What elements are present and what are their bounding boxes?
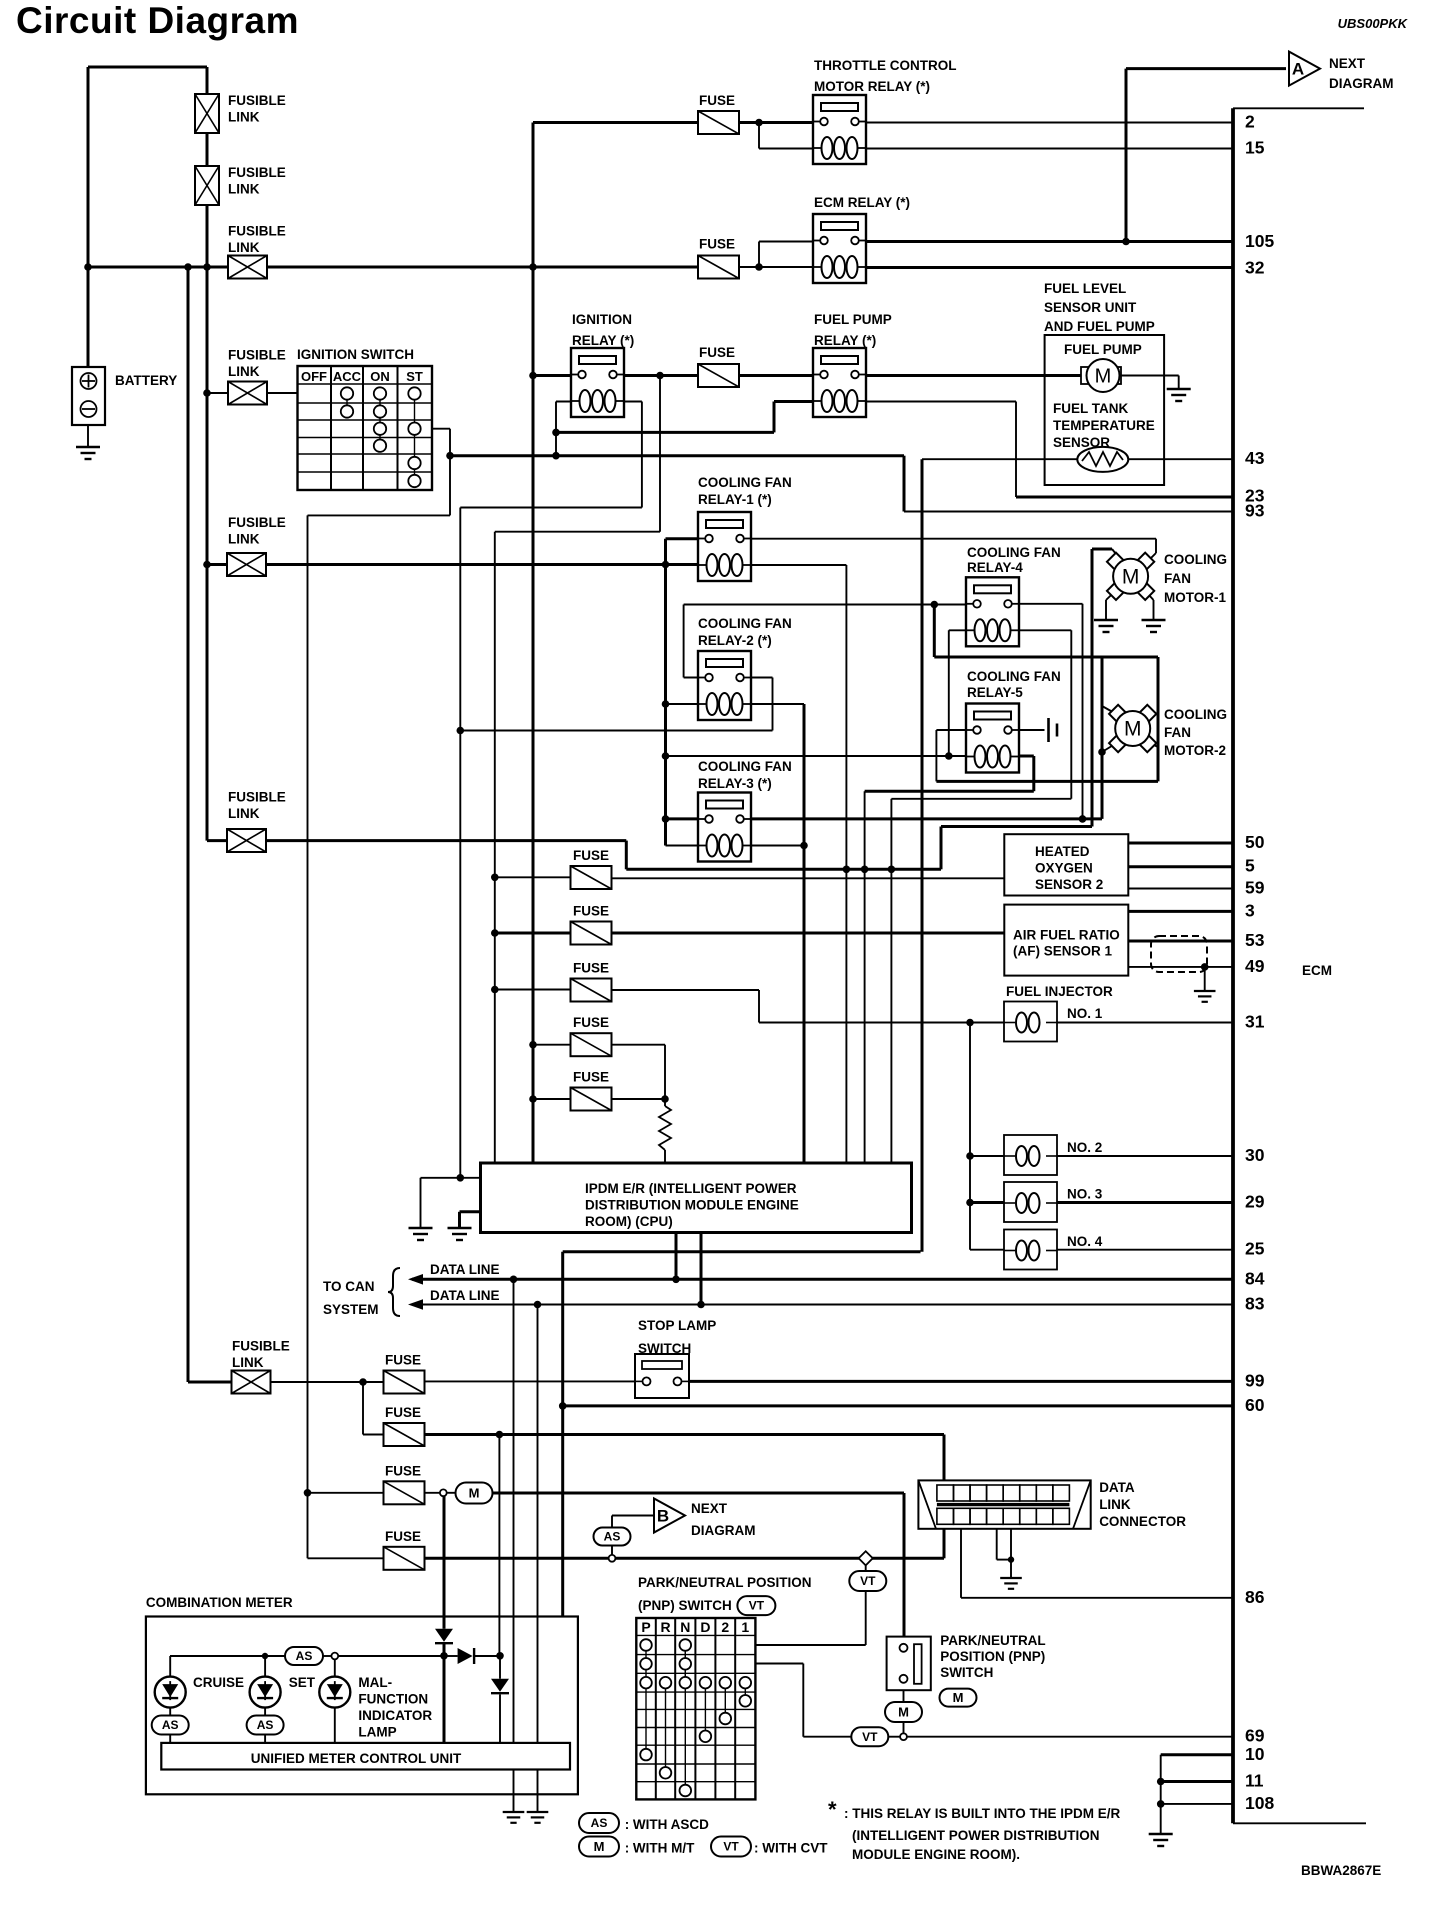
wire to fuse (495, 932, 571, 935)
junction (359, 1378, 367, 1386)
ground (meter 2) (527, 1812, 549, 1823)
VT oval (pin 69) (851, 1727, 888, 1746)
svg-text:OFF: OFF (301, 369, 327, 384)
ground (battery) (76, 447, 100, 459)
svg-text:SENSOR UNIT: SENSOR UNIT (1044, 300, 1137, 315)
svg-text:NO. 1: NO. 1 (1067, 1006, 1103, 1021)
svg-text:VT: VT (862, 1730, 878, 1744)
VT legend oval (711, 1837, 751, 1857)
fuse (ECM relay) (698, 256, 739, 279)
wire fuse to heated oxygen sensor (612, 877, 1005, 879)
svg-text:INDICATOR: INDICATOR (358, 1708, 432, 1723)
svg-text:FUSE: FUSE (385, 1353, 421, 1368)
junction fuse2 feed (491, 929, 499, 937)
fuse (DLC) (384, 1423, 425, 1446)
wire relay-5 coil feed (666, 755, 974, 757)
svg-text:LINK: LINK (228, 182, 260, 197)
junction (697, 1301, 705, 1309)
junction (888, 866, 896, 874)
wire relay-2 coil return (744, 703, 804, 705)
dashed connector (AF sensor) (1151, 936, 1207, 972)
fuse 5 (571, 1088, 612, 1111)
wire ignition relay to fuse (617, 374, 698, 377)
svg-text:DATA: DATA (1099, 1480, 1135, 1495)
svg-text:FUEL LEVEL: FUEL LEVEL (1044, 281, 1126, 296)
wire relay-4 coil return (1012, 629, 1071, 631)
svg-text:LINK: LINK (228, 364, 260, 379)
wire to ignition relay contact (533, 374, 578, 377)
wire MIL top (334, 1659, 336, 1677)
svg-text:60: 60 (1245, 1395, 1265, 1415)
svg-text:THROTTLE CONTROL: THROTTLE CONTROL (814, 58, 956, 73)
svg-text:(PNP) SWITCH: (PNP) SWITCH (638, 1598, 732, 1613)
wire battery negative to ground (87, 425, 89, 447)
svg-text:MAL-: MAL- (358, 1675, 392, 1690)
svg-text:TO CAN: TO CAN (323, 1279, 375, 1294)
svg-text:SET: SET (289, 1675, 316, 1690)
svg-text:DIAGRAM: DIAGRAM (1329, 76, 1394, 91)
svg-text:STOP LAMP: STOP LAMP (638, 1318, 716, 1333)
wire data line 2 termination (537, 1305, 539, 1743)
wire AS tap (611, 1546, 613, 1556)
svg-text:M: M (469, 1485, 480, 1500)
ground (IPDM 1) (409, 1228, 433, 1240)
ignition switch table (298, 366, 433, 490)
fusible link 5 (227, 553, 266, 576)
svg-text:M: M (953, 1690, 964, 1705)
wire AF sensor to pin 3 (1128, 910, 1233, 913)
wire relay-1 coil return (744, 564, 846, 566)
svg-text:M: M (1122, 565, 1140, 588)
fuse (fuel pump relay) (698, 364, 739, 387)
svg-text:TEMPERATURE: TEMPERATURE (1053, 418, 1155, 433)
cooling fan relay-5 (965, 704, 1020, 773)
junction (457, 727, 465, 735)
svg-text:NO. 2: NO. 2 (1067, 1140, 1102, 1155)
svg-text:PARK/NEUTRAL POSITION: PARK/NEUTRAL POSITION (638, 1575, 812, 1590)
svg-text:SENSOR: SENSOR (1053, 435, 1110, 450)
svg-text:RELAY (*): RELAY (*) (814, 333, 876, 348)
svg-text:IPDM E/R (INTELLIGENT POWER: IPDM E/R (INTELLIGENT POWER (585, 1181, 797, 1196)
ground (ECM pins) (1149, 1834, 1173, 1846)
wire injector no.1 to pin 31 (1057, 1022, 1233, 1024)
wire inside PNP switch (903, 1651, 905, 1675)
svg-text:43: 43 (1245, 448, 1265, 468)
svg-text:Circuit Diagram: Circuit Diagram (16, 0, 299, 41)
data link connector (918, 1480, 1090, 1528)
svg-text:FAN: FAN (1164, 571, 1191, 586)
svg-text:49: 49 (1245, 956, 1265, 976)
svg-text:HEATED: HEATED (1035, 844, 1090, 859)
fuse (meter M) (384, 1481, 425, 1504)
next diagram A arrow (1289, 52, 1320, 86)
junction (203, 263, 211, 271)
svg-text:FUSE: FUSE (385, 1405, 421, 1420)
wire to next diagram B (612, 1515, 654, 1517)
svg-text:: WITH M/T: : WITH M/T (625, 1841, 695, 1856)
svg-text:(AF) SENSOR 1: (AF) SENSOR 1 (1013, 944, 1113, 959)
stop lamp switch (635, 1354, 689, 1398)
connector circle (pin 69) (900, 1733, 907, 1740)
wire cooling fan feed vertical (664, 539, 667, 846)
svg-text:ECM: ECM (1302, 963, 1332, 978)
wire fuse to data link connector (424, 1433, 945, 1436)
wire PNP switch row 1 (755, 1644, 865, 1646)
junction (203, 561, 211, 569)
svg-text:93: 93 (1245, 501, 1265, 521)
svg-text:2: 2 (1245, 111, 1255, 131)
junction (662, 561, 670, 569)
wire M/T circuit to PNP switch (492, 1492, 904, 1495)
svg-text:DATA LINE: DATA LINE (430, 1262, 500, 1277)
wire fusible link 4 to ignition switch (266, 392, 298, 394)
svg-text:RELAY (*): RELAY (*) (572, 333, 634, 348)
junction (529, 1095, 537, 1103)
wire to fuse (495, 989, 571, 991)
AS oval (set) (247, 1716, 284, 1735)
svg-text:BBWA2867E: BBWA2867E (1301, 1863, 1381, 1878)
svg-text:AS: AS (591, 1816, 608, 1830)
junction (304, 1489, 312, 1497)
svg-text:N: N (680, 1619, 690, 1635)
wire motor-1 to ground right (1143, 589, 1154, 601)
svg-text:FUEL TANK: FUEL TANK (1053, 401, 1128, 416)
junction (945, 752, 953, 760)
wire to fuse (533, 1044, 571, 1046)
wire to relay-3 coil (666, 845, 707, 847)
svg-text:LINK: LINK (228, 532, 260, 547)
resistor (IPDM) (659, 1106, 671, 1150)
wire fusible link column (206, 205, 209, 841)
park/neutral position switch component (887, 1637, 931, 1691)
junction (529, 263, 537, 271)
wire motor-2 left taps (1101, 657, 1104, 819)
svg-text:AS: AS (604, 1530, 621, 1544)
wire to relay-5 contact (936, 729, 973, 731)
fusible link 4 (228, 382, 267, 405)
wire combination meter lamp feed (170, 1655, 285, 1657)
svg-text:15: 15 (1245, 138, 1265, 158)
svg-text:99: 99 (1245, 1370, 1265, 1390)
wire to fusible link 4 (207, 392, 228, 394)
wire motor-1 upper-left (1092, 548, 1112, 551)
svg-text:11: 11 (1245, 1771, 1264, 1791)
svg-text:(INTELLIGENT POWER DISTRIBUTIO: (INTELLIGENT POWER DISTRIBUTION (852, 1828, 1100, 1843)
VT oval (CVT) (849, 1571, 886, 1591)
wire injector no.2 to pin 30 (1057, 1155, 1233, 1157)
svg-text:LINK: LINK (228, 240, 260, 255)
svg-text:3: 3 (1245, 900, 1255, 920)
wire motor-2 to relay-5 contact (936, 780, 1158, 783)
cooling fan motor-1 (1107, 553, 1154, 600)
wire injector no.3 to pin 29 (1057, 1201, 1233, 1204)
wire ACC feed to IPDM (494, 532, 496, 1162)
wire to relay-2 coil (666, 703, 708, 705)
svg-text:VT: VT (723, 1840, 739, 1854)
wire throttle relay contact to pin 2 (859, 122, 1234, 124)
junction motor-2 blade (1098, 748, 1106, 756)
fuse (throttle relay) (698, 111, 739, 134)
fuse (meter AS) (384, 1547, 425, 1570)
svg-text:86: 86 (1245, 1587, 1265, 1607)
ground (AF sensor shield) (1194, 991, 1216, 1002)
wire HO2S to pin 5 (1128, 865, 1233, 868)
wire to fuse (495, 876, 571, 878)
svg-text:RELAY-2 (*): RELAY-2 (*) (698, 633, 772, 648)
wire ignition relay coil left (556, 401, 579, 403)
wire to ground (420, 1178, 422, 1228)
svg-text:AS: AS (296, 1649, 313, 1663)
throttle control motor relay (812, 95, 867, 164)
diode (M circuit) (435, 1629, 453, 1644)
fuel pump relay (812, 348, 867, 417)
svg-text:LINK: LINK (1099, 1497, 1131, 1512)
cooling fan relay-3 (697, 793, 752, 862)
wire set lamp top (264, 1656, 266, 1676)
cooling fan motor-2 (1109, 705, 1156, 752)
ignition relay (570, 348, 625, 417)
AS legend oval (579, 1813, 619, 1833)
data line arrow 2 (408, 1299, 423, 1310)
wire AF sensor to pin 49 (1128, 966, 1233, 968)
svg-text:AIR FUEL RATIO: AIR FUEL RATIO (1013, 928, 1120, 943)
wire to MIL diode (498, 1435, 500, 1656)
svg-text:PARK/NEUTRAL: PARK/NEUTRAL (940, 1633, 1045, 1648)
svg-text:ECM RELAY (*): ECM RELAY (*) (814, 195, 910, 210)
junction (1157, 1778, 1165, 1786)
AS oval (next diagram B) (594, 1528, 631, 1546)
wire relay-5 contact to condenser (1013, 729, 1045, 731)
wire data line 1 termination (513, 1279, 515, 1743)
fuel injector no. 3 (1004, 1182, 1057, 1222)
next diagram B arrow (654, 1499, 685, 1533)
wire pin 108 (1161, 1803, 1233, 1805)
wire relay-2 contact return (460, 730, 773, 732)
svg-text:50: 50 (1245, 832, 1265, 852)
wire to next diagram A (1126, 67, 1286, 70)
wire relay-4 coil left (949, 629, 974, 631)
wire fusible link 6 output (266, 839, 626, 842)
fusible link 1 (195, 94, 219, 133)
IPDM E/R box (481, 1163, 912, 1233)
wire main vertical feed (532, 123, 535, 1163)
wire stop lamp switch to pin 99 (681, 1380, 1233, 1383)
svg-text:COOLING FAN: COOLING FAN (967, 545, 1061, 560)
svg-text:DIAGRAM: DIAGRAM (691, 1523, 756, 1538)
svg-text:59: 59 (1245, 878, 1265, 898)
junction ignition relay feed (529, 372, 537, 380)
ground (motor-1 right) (1142, 620, 1166, 632)
svg-text:COOLING: COOLING (1164, 707, 1227, 722)
wire bus to ECM relay fuse (267, 266, 698, 269)
junction (861, 866, 869, 874)
svg-text:ROOM) (CPU): ROOM) (CPU) (585, 1214, 673, 1229)
svg-text:FUSIBLE: FUSIBLE (228, 165, 286, 180)
svg-text:FUSIBLE: FUSIBLE (228, 93, 286, 108)
svg-text:IGNITION: IGNITION (572, 312, 632, 327)
ground (IPDM 2) (448, 1228, 472, 1240)
svg-text:FUSIBLE: FUSIBLE (232, 1339, 290, 1354)
svg-text:SWITCH: SWITCH (940, 1665, 993, 1680)
wire to relay-3 contact (666, 817, 705, 820)
svg-text:FUSE: FUSE (573, 961, 609, 976)
wire AF sensor to pin 53 (1128, 940, 1233, 943)
VT oval (PNP table) (737, 1596, 775, 1615)
wire IPDM to data line 1 (675, 1232, 678, 1279)
wire HO2S to pin 59 (1128, 888, 1233, 890)
svg-text:AND FUEL PUMP: AND FUEL PUMP (1044, 319, 1155, 334)
junction (552, 452, 560, 460)
wire to pin 69 (907, 1736, 1233, 1738)
svg-text:UNIFIED METER CONTROL UNIT: UNIFIED METER CONTROL UNIT (251, 1751, 462, 1766)
cooling fan relay-1 (697, 512, 752, 581)
fuel tank temperature sensor (1077, 447, 1128, 472)
wire fusible link to relay-1 coil (266, 563, 704, 566)
wire relay-3 contact to motor-2 (744, 817, 1102, 820)
junction fuse1 feed (491, 874, 499, 882)
svg-text:FUEL PUMP: FUEL PUMP (814, 312, 892, 327)
svg-text:ON: ON (370, 369, 390, 384)
svg-text:FUSE: FUSE (699, 345, 735, 360)
brace (to CAN system) (388, 1268, 400, 1316)
junction (1079, 815, 1087, 823)
wire motor-1 to ground left (1106, 589, 1118, 601)
M legend oval (579, 1837, 619, 1857)
svg-text:NO. 4: NO. 4 (1067, 1234, 1103, 1249)
wire to fuse (308, 1492, 384, 1494)
svg-text:IGNITION SWITCH: IGNITION SWITCH (297, 347, 414, 362)
svg-text:COOLING FAN: COOLING FAN (698, 616, 792, 631)
wire to fuse (533, 1098, 571, 1100)
wire fuse to fuel pump relay contact (737, 374, 821, 377)
svg-text:M: M (1095, 366, 1112, 388)
svg-text:LINK: LINK (232, 1355, 264, 1370)
svg-text:FUSE: FUSE (385, 1463, 421, 1478)
junction (931, 601, 939, 609)
svg-text:: THIS RELAY IS BUILT INTO THE: : THIS RELAY IS BUILT INTO THE IPDM E/R (844, 1806, 1121, 1821)
junction (966, 1199, 974, 1207)
wire data line to pin 84 (412, 1278, 1233, 1281)
connector circle (M) (440, 1489, 447, 1496)
svg-text:32: 32 (1245, 257, 1265, 277)
fuel level sensor unit and fuel pump box (1045, 335, 1165, 485)
svg-text:RELAY-4: RELAY-4 (967, 560, 1023, 575)
junction (529, 1041, 537, 1049)
wire to ECM relay contact (759, 241, 821, 243)
svg-text:UBS00PKK: UBS00PKK (1338, 16, 1409, 31)
AS oval (lamp feed) (285, 1647, 323, 1665)
svg-text:LAMP: LAMP (358, 1725, 396, 1740)
fuel injector no. 2 (1004, 1135, 1057, 1175)
svg-text:MOTOR RELAY (*): MOTOR RELAY (*) (814, 79, 930, 94)
wire ECM relay contact to pin 105 (862, 240, 1233, 243)
svg-text:R: R (660, 1619, 670, 1635)
svg-text:*: * (828, 1797, 837, 1822)
svg-text:SYSTEM: SYSTEM (323, 1302, 379, 1317)
wire ignition coil return down (459, 508, 461, 1178)
svg-text:M: M (1124, 718, 1142, 741)
ground (DLC) (1000, 1578, 1022, 1589)
wire to fuel pump relay coil (556, 431, 774, 434)
wire to throttle relay coil (759, 148, 821, 150)
junction on pin 105 line (1122, 238, 1130, 246)
svg-text:25: 25 (1245, 1239, 1265, 1259)
svg-text:FUEL INJECTOR: FUEL INJECTOR (1006, 984, 1113, 999)
junction pin 60 (559, 1402, 567, 1410)
fuel injector no. 1 (1004, 1002, 1057, 1042)
cooling fan relay-4 (965, 577, 1020, 646)
junction (672, 1276, 680, 1284)
junction (843, 866, 851, 874)
junction injector no.1 (966, 1019, 974, 1027)
wire left feed down (187, 267, 190, 1382)
wire fuse to injectors (612, 989, 760, 991)
svg-text:DATA LINE: DATA LINE (430, 1288, 500, 1303)
junction SET lamp (262, 1653, 268, 1659)
junction (966, 1152, 974, 1160)
svg-text:CRUISE: CRUISE (193, 1675, 244, 1690)
wire relay-4 contact feed (684, 604, 974, 606)
wire ECM connector bus (1231, 108, 1235, 1823)
junction (510, 1276, 518, 1284)
svg-text:ST: ST (406, 369, 423, 384)
set lamp (250, 1677, 281, 1708)
svg-text:NEXT: NEXT (1329, 56, 1366, 71)
wire ACC feed down (659, 376, 661, 532)
wire ASCD/CVT circuit (424, 1557, 610, 1560)
svg-text:P: P (641, 1619, 650, 1635)
svg-text:83: 83 (1245, 1294, 1265, 1314)
wire injector no.4 to pin 25 (1057, 1249, 1233, 1251)
svg-text:FUSE: FUSE (573, 904, 609, 919)
svg-text:29: 29 (1245, 1192, 1265, 1212)
park/neutral position switch table (636, 1618, 755, 1799)
svg-text:FUSE: FUSE (699, 237, 735, 252)
junction (1008, 1556, 1014, 1562)
junction (552, 429, 560, 437)
combination meter box (146, 1617, 578, 1795)
ground (motor-1 left) (1094, 620, 1118, 632)
junction (203, 389, 211, 397)
fusible link 7 (232, 1371, 271, 1394)
fuse (stop lamp) (384, 1371, 425, 1394)
wire motor-1 return (626, 868, 941, 871)
wire temp sensor return down (921, 459, 924, 1251)
svg-text:COOLING FAN: COOLING FAN (698, 475, 792, 490)
svg-text:ACC: ACC (333, 369, 362, 384)
connector circle (AS) (609, 1555, 616, 1562)
wire start signal (450, 454, 904, 457)
wire DLC to pin 86 (960, 1529, 962, 1598)
wire to pin 23 (1016, 496, 1233, 499)
wire pin 10 (1161, 1753, 1233, 1756)
fusible link 2 (195, 166, 219, 205)
wire between fusible links (206, 133, 209, 166)
wire fuel pump motor to ground (1121, 375, 1179, 377)
wire data line to pin 83 (412, 1304, 1233, 1306)
wire ACC feed to bottom fuses (307, 515, 309, 1558)
wire fuse to stop lamp switch (424, 1380, 647, 1382)
junction (656, 372, 664, 380)
wire ignition relay coil right (612, 401, 642, 403)
svg-text:SENSOR 2: SENSOR 2 (1035, 877, 1103, 892)
svg-text:NEXT: NEXT (691, 1501, 728, 1516)
junction (184, 263, 192, 271)
svg-text:B: B (657, 1507, 669, 1526)
svg-text:FUEL PUMP: FUEL PUMP (1064, 342, 1142, 357)
svg-text:A: A (1292, 60, 1304, 79)
junction (457, 1174, 465, 1182)
